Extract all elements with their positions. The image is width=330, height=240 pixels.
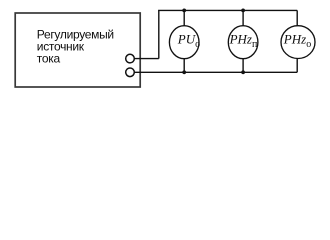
junction dot: top rail at PU0 xyxy=(182,9,186,13)
wire: top lead of meter PU0 xyxy=(183,10,185,25)
junction dot: bottom rail at PU0 xyxy=(182,70,186,74)
meter PHz0 circle xyxy=(281,26,315,59)
wire: riser up to top rail xyxy=(158,10,160,58)
wire: top lead of meter PHz0 (from rail right end) xyxy=(296,10,298,26)
meter PU0 circle xyxy=(169,26,199,59)
meter PHzп circle xyxy=(228,26,258,59)
svg-text:тока: тока xyxy=(37,51,61,65)
wire: top lead of meter PHzп xyxy=(242,10,244,25)
junction dot: bottom rail at PHzп xyxy=(241,70,245,74)
wire: bottom lead of meter PHzп xyxy=(242,59,244,73)
current source box xyxy=(15,13,140,87)
wire: top rail xyxy=(158,9,297,11)
wire: upper terminal to riser corner xyxy=(134,58,159,60)
label: Регулируемый источник тока xyxy=(37,27,114,65)
wire: bottom lead of meter PU0 xyxy=(183,59,185,73)
terminal X2 (lower output jack) xyxy=(126,68,135,77)
junction dot: top rail at PHzп xyxy=(241,9,245,13)
terminal X1 (upper output jack) xyxy=(126,54,135,63)
wire: bottom lead of meter PHz0 (to rail right end) xyxy=(296,58,298,72)
wire: lower terminal / bottom rail xyxy=(134,71,297,73)
